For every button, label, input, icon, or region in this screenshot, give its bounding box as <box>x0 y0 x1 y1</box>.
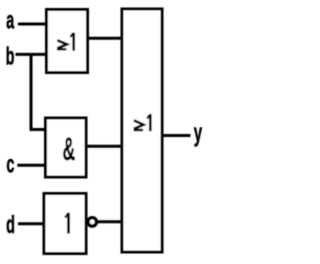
wire inverter U3 output to OR U4 <box>98 220 124 223</box>
AND gate U2 box <box>46 118 87 177</box>
wire a to OR gate U1 <box>18 23 48 26</box>
inverter U3 box <box>44 194 86 254</box>
OR gate U4 label digit 1 <box>147 114 150 131</box>
wire b branch vertical <box>30 53 33 130</box>
svg-text:b: b <box>6 44 15 71</box>
wire b branch horizontal to AND gate U2 <box>30 128 48 131</box>
wire AND U2 output to OR U4 <box>85 145 124 148</box>
wire c to AND gate U2 <box>17 164 47 167</box>
OR gate U4 box <box>122 9 162 252</box>
svg-text:y: y <box>194 118 203 147</box>
OR gate U1 label digit 1 <box>70 33 73 51</box>
svg-text:c: c <box>6 152 14 179</box>
wire OR U1 output to OR U4 <box>86 37 124 40</box>
svg-text:&: & <box>63 133 76 168</box>
OR gate U1 label &#8805;1 <box>57 40 67 49</box>
wire b to OR gate U1 <box>16 53 49 56</box>
svg-text:d: d <box>6 212 15 239</box>
svg-text:a: a <box>6 8 15 35</box>
OR gate U1 box <box>47 10 88 73</box>
wire d to inverter U3 <box>18 222 46 225</box>
OR gate U4 label &#8805;1 <box>134 120 144 130</box>
inverter U3 bubble <box>88 218 96 226</box>
wire y output <box>161 134 191 137</box>
inverter U3 label 1 <box>65 213 68 234</box>
